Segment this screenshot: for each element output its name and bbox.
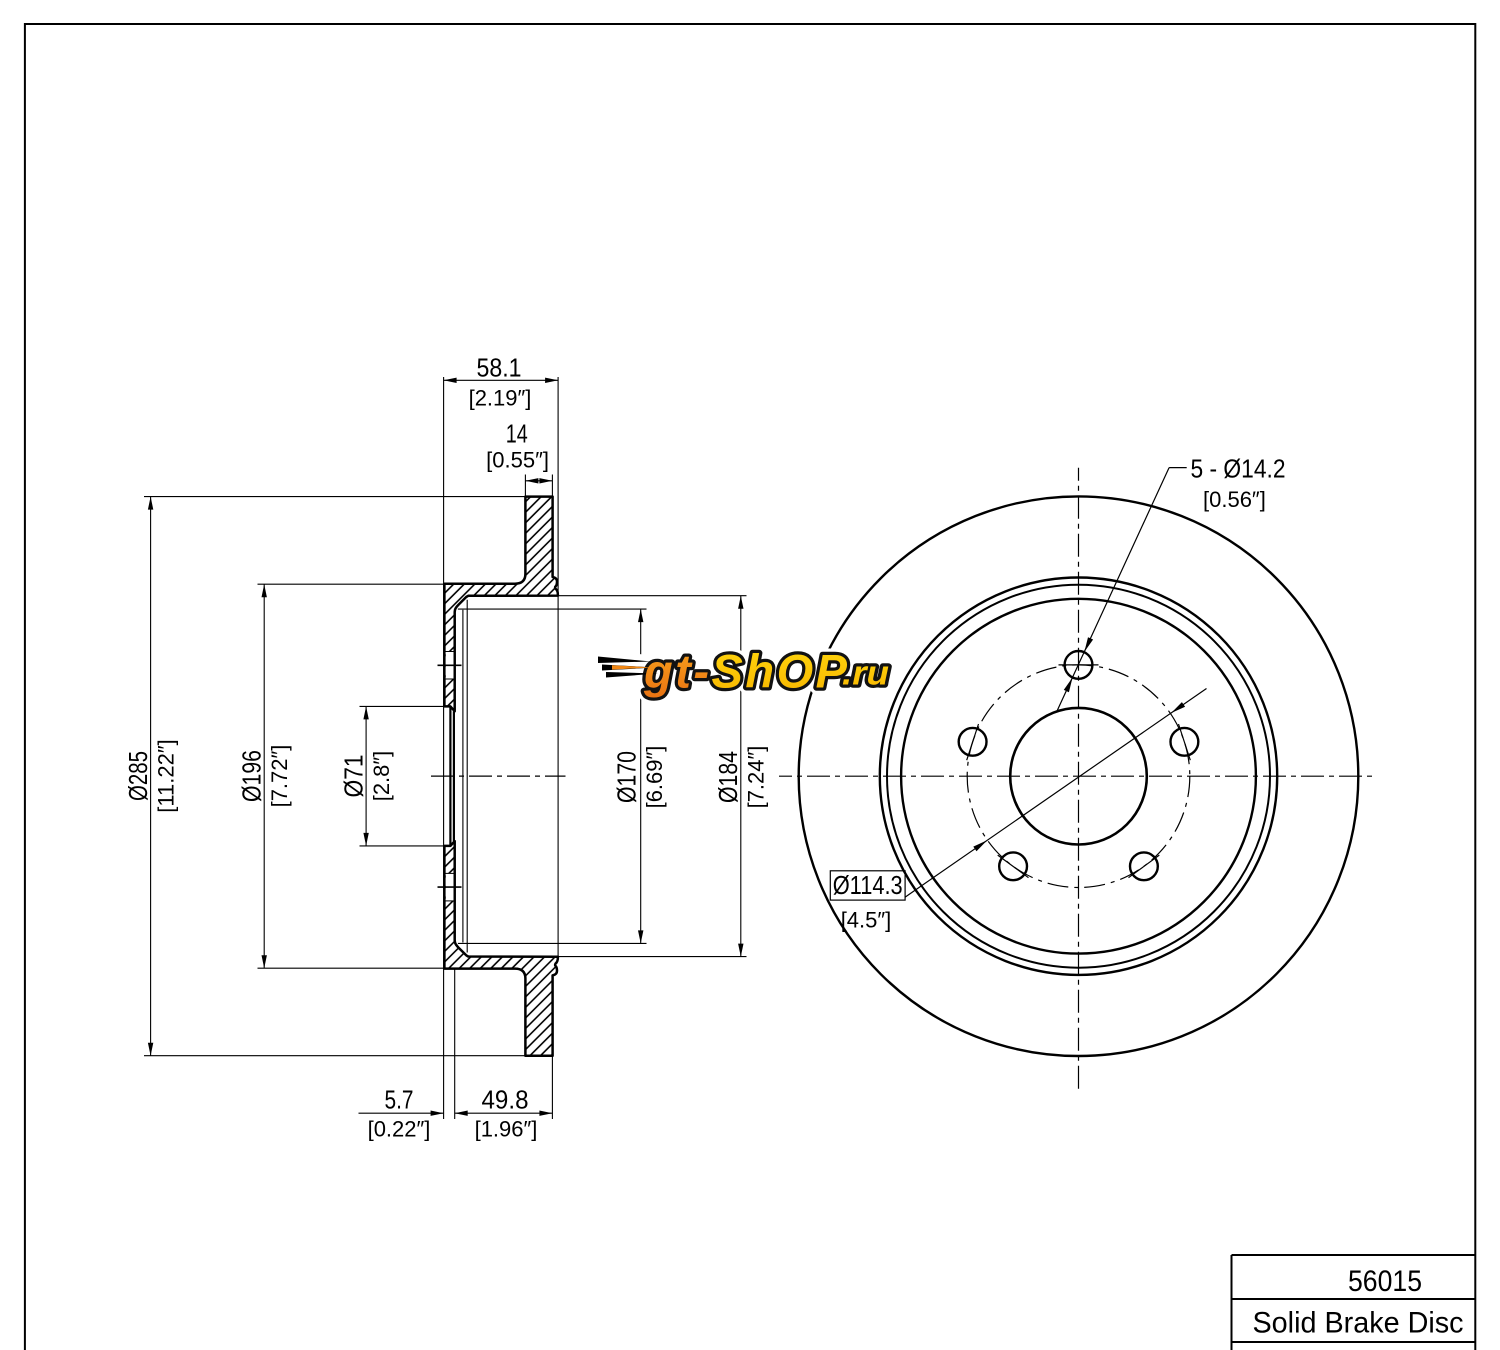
- arrow 5-D14.2 lower: [1064, 677, 1073, 692]
- arrow D196 bottom: [262, 955, 267, 968]
- friction inner edge circle: [880, 578, 1277, 975]
- dim 14 extension lines: [524, 475, 526, 497]
- svg-text:Solid Brake Disc: Solid Brake Disc: [1253, 1307, 1464, 1340]
- arrow 5-D14.2 upper: [1084, 637, 1093, 652]
- svg-text:[11.22″]: [11.22″]: [154, 739, 179, 812]
- dim D170 extension lines: [458, 608, 647, 610]
- arrowheads (front view): [973, 637, 1185, 851]
- dim D71 line: [365, 706, 367, 846]
- svg-text:gt-ShOP: gt-ShOP: [643, 645, 849, 698]
- svg-text:49.8: 49.8: [482, 1085, 529, 1115]
- bolt circle D114.3 dash-dot: [967, 665, 1190, 888]
- arrow D285 bottom: [148, 1043, 153, 1056]
- arrow D170 top: [638, 609, 643, 622]
- outer circle D285: [799, 496, 1359, 1056]
- logo speed lines: [598, 657, 658, 678]
- hat inner circle D184: [901, 599, 1256, 954]
- bolt hole centerline tick lower: [438, 886, 462, 888]
- section lower half cut region (hatched): [444, 841, 558, 1056]
- arrow D196 top: [262, 584, 267, 597]
- bolt hole top: [1065, 651, 1093, 679]
- arrow D170 bottom: [638, 930, 643, 943]
- arrow 49.8 right: [539, 1111, 552, 1116]
- vertical centerline: [1078, 468, 1080, 1090]
- svg-text:Ø71: Ø71: [339, 755, 369, 798]
- svg-text:[2.8″]: [2.8″]: [369, 751, 394, 802]
- arrow D114.3 lower-left: [973, 840, 987, 851]
- svg-text:58.1: 58.1: [477, 353, 522, 383]
- svg-text:5.7: 5.7: [385, 1085, 414, 1115]
- svg-text:[1.96″]: [1.96″]: [475, 1117, 538, 1142]
- bolt hole right upper: [1171, 728, 1199, 756]
- section upper half cut region (hatched): [444, 497, 558, 712]
- dim D285 extension lines: [144, 496, 525, 498]
- arrow 14 right: [539, 478, 552, 483]
- hub bore edge verticals: [449, 706, 451, 846]
- arrow D184 bottom: [738, 944, 743, 957]
- arrow 58.1 right: [545, 378, 558, 383]
- hat outer circle D196: [887, 585, 1270, 968]
- leader D114.3: [905, 689, 1207, 898]
- section centerline: [431, 775, 566, 777]
- bolt hole left lower: [999, 852, 1027, 880]
- svg-text:5 - Ø14.2: 5 - Ø14.2: [1191, 454, 1286, 484]
- svg-text:[7.72″]: [7.72″]: [267, 745, 292, 808]
- arrow D71 bottom: [363, 833, 368, 846]
- svg-text:[0.56″]: [0.56″]: [1203, 487, 1266, 512]
- arrow D71 top: [363, 706, 368, 719]
- svg-text:14: 14: [506, 418, 528, 448]
- dimension texts (section): [123, 353, 769, 1142]
- dim D196 extension lines: [258, 583, 445, 585]
- bolt hole centerline tick upper: [438, 664, 462, 666]
- dim 14 line: [525, 480, 552, 482]
- svg-text:[2.19″]: [2.19″]: [469, 386, 532, 411]
- bolt hole tangent ticks: [1059, 664, 1099, 666]
- arrow 58.1 left: [444, 378, 457, 383]
- bolt hole gap in lower flange: [446, 873, 454, 901]
- svg-text:[7.24″]: [7.24″]: [744, 746, 769, 809]
- svg-text:[4.5″]: [4.5″]: [841, 908, 892, 933]
- arrow 14 left: [525, 478, 538, 483]
- svg-text:Ø170: Ø170: [612, 751, 642, 803]
- arrowheads (section): [148, 378, 744, 1116]
- title block outline: [1232, 1254, 1476, 1256]
- hub bore circle D71: [1010, 708, 1147, 845]
- svg-text:Ø285: Ø285: [123, 751, 153, 801]
- svg-text:56015: 56015: [1348, 1265, 1422, 1298]
- box around D114.3: [830, 871, 905, 900]
- svg-text:Ø114.3: Ø114.3: [833, 870, 903, 900]
- front view texts: [833, 454, 1286, 933]
- bolt hole right lower: [1130, 852, 1158, 880]
- horizontal centerline: [779, 775, 1376, 777]
- svg-text:Ø196: Ø196: [237, 750, 267, 802]
- dim 58.1 line: [444, 379, 558, 381]
- svg-text:[0.55″]: [0.55″]: [486, 448, 549, 473]
- dim 58.1 extension lines: [443, 377, 445, 1119]
- arrow D184 top: [738, 596, 743, 609]
- dim 5.7 line: [359, 1112, 444, 1114]
- bolt hole gap in upper flange: [446, 652, 454, 680]
- arrow D114.3 upper-right: [1171, 702, 1185, 713]
- arrow 49.8 left: [455, 1111, 468, 1116]
- svg-text:.ru: .ru: [842, 655, 889, 693]
- bolt hole left upper: [959, 728, 987, 756]
- svg-text:[6.69″]: [6.69″]: [642, 746, 667, 809]
- svg-text:[0.22″]: [0.22″]: [368, 1117, 431, 1142]
- dim D184 extension lines: [558, 595, 747, 597]
- leader 5-D14.2: [1057, 468, 1169, 711]
- dim 49.8 line: [455, 1112, 553, 1114]
- inner chamfer edge verticals: [462, 610, 464, 943]
- dim 49.8 extension lines: [454, 969, 456, 1120]
- logo black outline pass: [643, 645, 889, 698]
- dim D184 line: [740, 596, 742, 957]
- dim D71 extension lines: [360, 705, 445, 707]
- dim D196 line: [263, 584, 265, 968]
- arrow 5.7 right: [431, 1111, 444, 1116]
- logo white halo: [598, 645, 889, 698]
- dim D285 line: [150, 497, 152, 1056]
- dim D170 line: [640, 609, 642, 943]
- svg-text:Ø184: Ø184: [713, 751, 743, 803]
- arrow D285 top: [148, 497, 153, 510]
